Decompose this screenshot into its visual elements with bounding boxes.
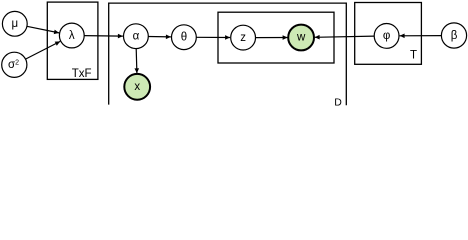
wire alpha->theta xyxy=(148,36,171,38)
plate label D xyxy=(334,97,342,109)
svg-text:z: z xyxy=(240,32,246,44)
plate label T xyxy=(410,50,417,62)
plate label TxF xyxy=(72,68,92,80)
node z xyxy=(231,25,256,50)
svg-text:T: T xyxy=(410,50,417,62)
svg-text:μ: μ xyxy=(11,18,18,30)
wire phi->w xyxy=(315,36,375,37)
wire alpha->x xyxy=(135,49,138,74)
wire z->w xyxy=(256,37,288,39)
node lambda xyxy=(59,23,84,48)
node w (observed) xyxy=(288,25,314,51)
svg-text:φ: φ xyxy=(383,30,390,42)
svg-text:D: D xyxy=(334,97,342,108)
node x (observed) xyxy=(124,74,150,100)
node theta xyxy=(172,25,197,50)
plate D (bottom edge cropped) xyxy=(109,3,347,105)
wire theta->z xyxy=(196,36,230,38)
plate TxF xyxy=(47,2,98,79)
svg-text:TxF: TxF xyxy=(72,68,92,80)
svg-text:λ: λ xyxy=(69,30,75,42)
node alpha xyxy=(123,24,148,49)
node beta xyxy=(441,23,466,48)
node phi xyxy=(374,24,399,49)
node mu xyxy=(2,11,27,36)
wire lambda->alpha xyxy=(84,35,123,38)
svg-text:β: β xyxy=(451,30,458,42)
svg-text:w: w xyxy=(296,32,306,44)
svg-text:x: x xyxy=(134,81,140,93)
svg-text:α: α xyxy=(133,31,140,43)
svg-text:θ: θ xyxy=(181,32,187,44)
plate T xyxy=(355,3,422,65)
wire sigma2->lambda xyxy=(26,41,61,59)
wire mu->lambda xyxy=(27,26,59,33)
wire beta->phi xyxy=(400,35,442,37)
node sigma2 xyxy=(2,52,27,77)
inner plate (words) xyxy=(218,12,334,63)
